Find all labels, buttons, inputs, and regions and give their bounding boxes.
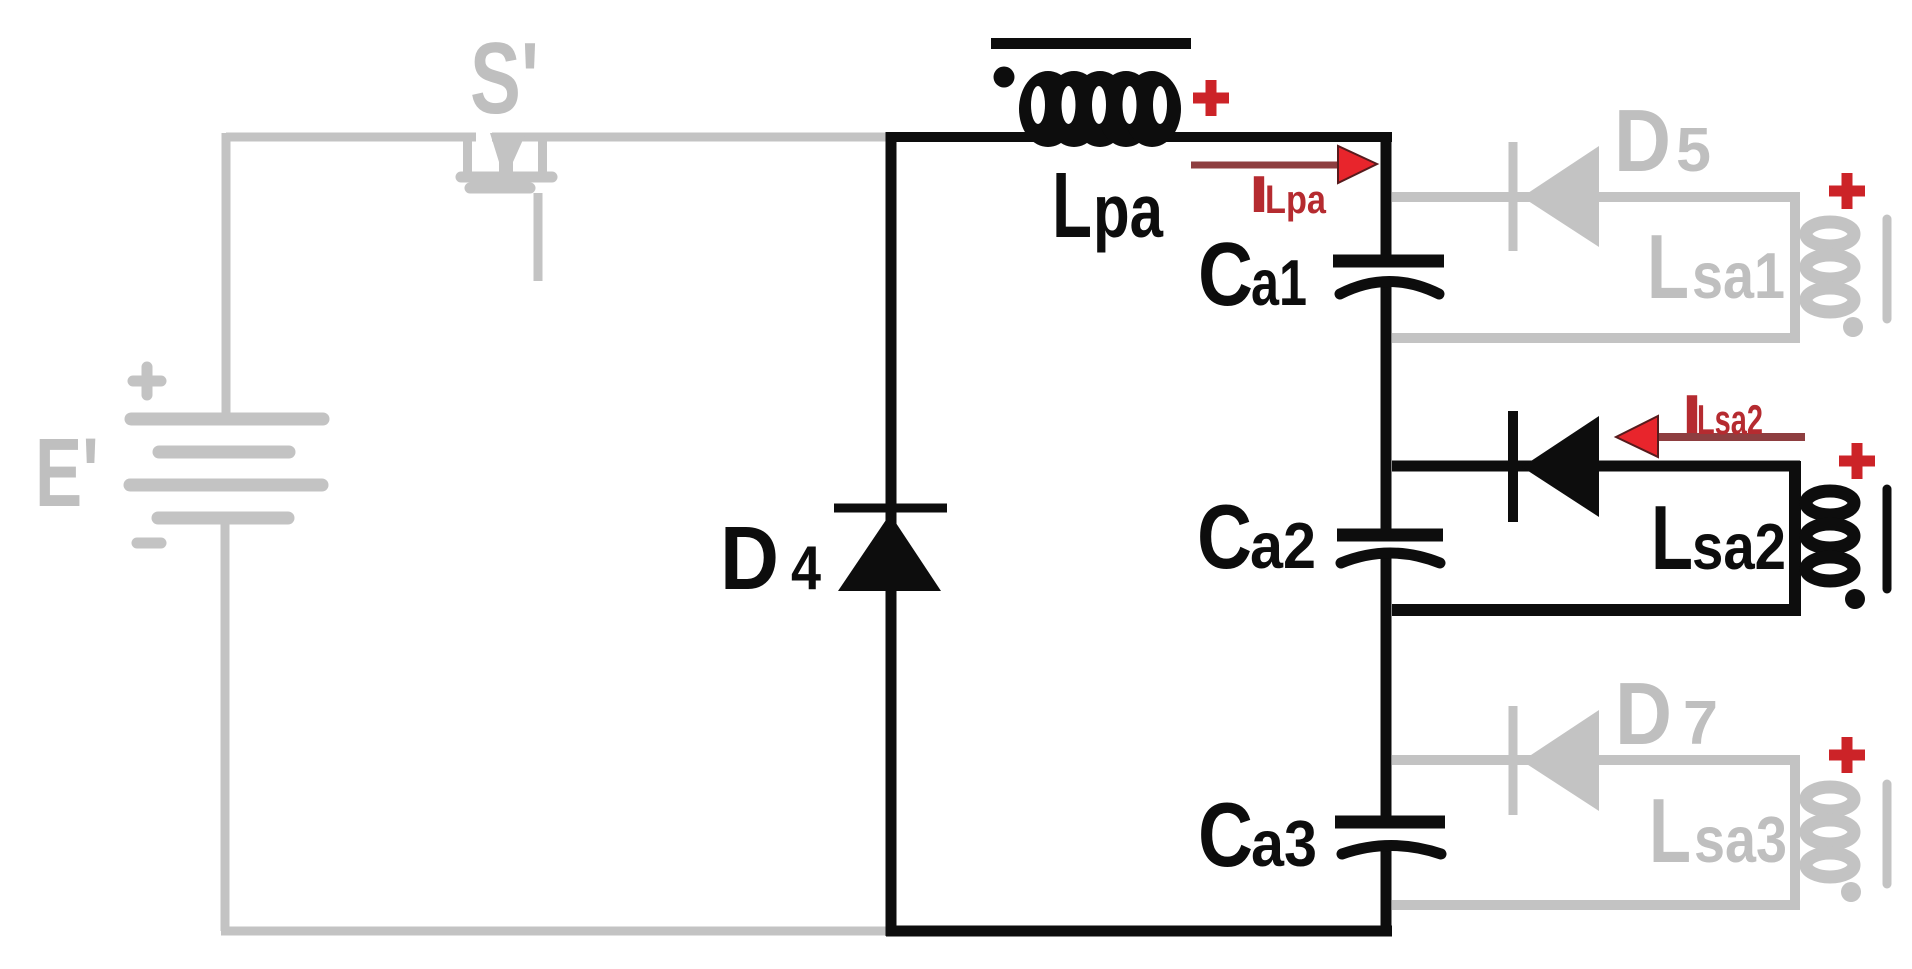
svg-text:7: 7 (1683, 689, 1718, 758)
svg-text:sa3: sa3 (1694, 803, 1787, 876)
svg-text:E': E' (35, 418, 99, 527)
svg-text:L: L (1647, 217, 1689, 318)
svg-text:D: D (1615, 664, 1672, 763)
svg-text:5: 5 (1676, 116, 1711, 185)
svg-text:S': S' (470, 23, 539, 135)
svg-text:sa2: sa2 (1692, 510, 1786, 583)
svg-text:C: C (1198, 225, 1253, 325)
svg-text:a2: a2 (1250, 509, 1316, 582)
svg-text:a1: a1 (1251, 246, 1307, 319)
svg-text:L: L (1651, 488, 1693, 589)
svg-text:4: 4 (791, 534, 821, 603)
svg-text:D: D (1614, 91, 1671, 190)
svg-text:C: C (1198, 785, 1253, 886)
svg-text:Lpa: Lpa (1265, 178, 1327, 222)
svg-text:sa1: sa1 (1692, 239, 1785, 312)
svg-text:D: D (720, 509, 779, 609)
svg-text:L: L (1052, 153, 1092, 257)
svg-text:a3: a3 (1251, 807, 1317, 880)
svg-text:L: L (1649, 781, 1691, 882)
svg-text:Lsa2: Lsa2 (1697, 396, 1763, 443)
svg-text:C: C (1197, 487, 1252, 588)
svg-text:pa: pa (1093, 169, 1164, 253)
